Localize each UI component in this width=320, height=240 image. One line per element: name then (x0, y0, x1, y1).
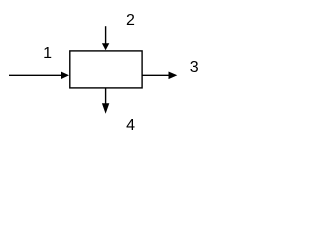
svg-text:3: 3 (190, 59, 199, 76)
wire output arrow 3 (142, 72, 177, 80)
wire input arrow 1 (9, 72, 69, 79)
svg-text:4: 4 (126, 117, 135, 134)
wire output arrow 4 (102, 88, 109, 114)
svg-text:1: 1 (43, 45, 52, 62)
svg-text:2: 2 (126, 12, 135, 29)
wire input arrow 2 (102, 26, 109, 50)
process block (70, 51, 142, 88)
